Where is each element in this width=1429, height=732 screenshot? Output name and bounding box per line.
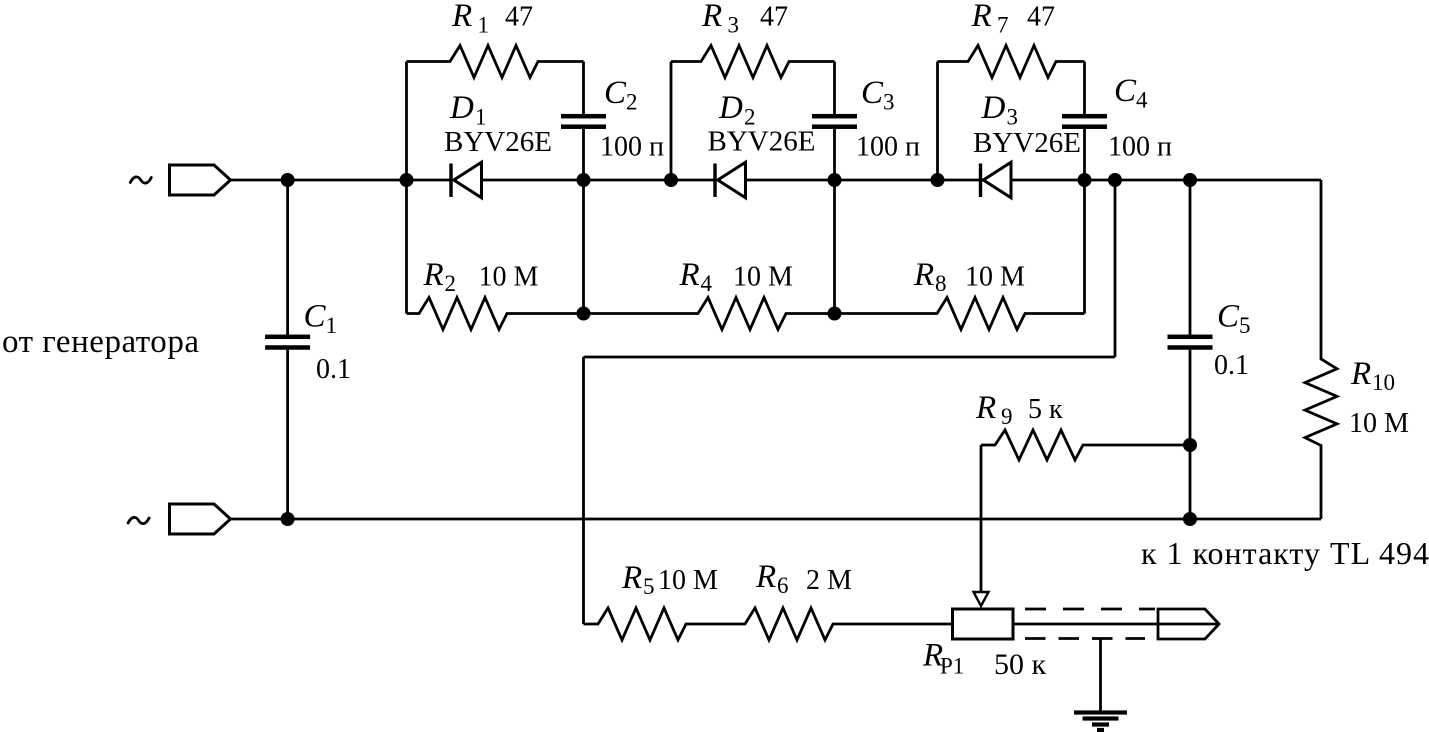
- svg-text:6: 6: [777, 573, 789, 598]
- svg-text:D: D: [981, 90, 1006, 126]
- svg-text:R: R: [913, 257, 934, 293]
- svg-text:0.1: 0.1: [1214, 350, 1249, 381]
- svg-text:1: 1: [478, 13, 490, 38]
- svg-text:R: R: [621, 560, 642, 596]
- svg-text:R: R: [679, 257, 700, 293]
- svg-text:Р1: Р1: [940, 654, 964, 679]
- svg-text:к 1 контакту TL 494: к 1 контакту TL 494: [1141, 535, 1429, 571]
- svg-text:10 М: 10 М: [1349, 408, 1409, 439]
- svg-text:47: 47: [760, 2, 788, 33]
- svg-text:R: R: [975, 390, 996, 426]
- svg-text:5 к: 5 к: [1028, 394, 1063, 425]
- svg-text:100 п: 100 п: [856, 132, 920, 163]
- svg-text:BYV26E: BYV26E: [973, 127, 1081, 159]
- svg-text:BYV26E: BYV26E: [444, 126, 552, 158]
- svg-text:7: 7: [997, 13, 1009, 38]
- svg-text:100 п: 100 п: [600, 132, 664, 163]
- svg-text:C: C: [861, 75, 884, 111]
- svg-text:5: 5: [643, 574, 655, 599]
- svg-text:4: 4: [1136, 88, 1148, 113]
- svg-text:R: R: [451, 0, 472, 34]
- svg-text:10 М: 10 М: [658, 565, 718, 596]
- svg-text:100 п: 100 п: [1108, 132, 1172, 163]
- svg-text:10 М: 10 М: [965, 262, 1025, 293]
- svg-text:R: R: [971, 0, 992, 34]
- svg-text:0.1: 0.1: [316, 354, 351, 385]
- svg-text:D: D: [718, 90, 743, 126]
- svg-text:9: 9: [1001, 404, 1013, 429]
- svg-text:4: 4: [701, 271, 713, 296]
- svg-text:D: D: [449, 90, 474, 126]
- svg-text:C: C: [304, 299, 327, 335]
- svg-text:10 М: 10 М: [479, 262, 539, 293]
- svg-text:2 М: 2 М: [806, 565, 852, 596]
- svg-text:50 к: 50 к: [994, 648, 1047, 681]
- svg-text:C: C: [1217, 299, 1240, 335]
- svg-text:3: 3: [1007, 105, 1019, 130]
- svg-text:3: 3: [883, 90, 895, 115]
- svg-text:5: 5: [1239, 313, 1251, 338]
- svg-text:10 М: 10 М: [733, 262, 793, 293]
- svg-text:от генератора: от генератора: [2, 324, 199, 360]
- svg-text:R: R: [701, 0, 722, 34]
- svg-text:47: 47: [1027, 2, 1055, 33]
- svg-text:1: 1: [326, 313, 338, 338]
- svg-text:8: 8: [935, 271, 947, 296]
- svg-text:R: R: [423, 257, 444, 293]
- svg-text:2: 2: [445, 271, 457, 296]
- svg-text:2: 2: [626, 90, 638, 115]
- svg-text:C: C: [1114, 73, 1137, 109]
- svg-text:R: R: [1350, 356, 1371, 392]
- svg-text:R: R: [755, 559, 776, 595]
- svg-text:10: 10: [1372, 370, 1395, 395]
- svg-text:BYV26E: BYV26E: [708, 126, 816, 158]
- svg-text:C: C: [604, 75, 627, 111]
- svg-text:47: 47: [505, 2, 533, 33]
- svg-text:3: 3: [728, 13, 740, 38]
